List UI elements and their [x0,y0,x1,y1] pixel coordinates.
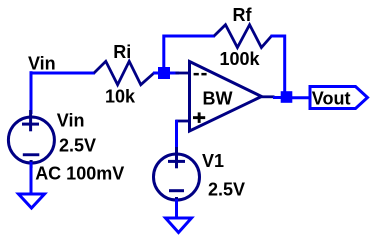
wire: AC source to ground [30,162,33,195]
wire: V1 to ground [175,199,178,219]
wire: op-amp output to output junction [273,96,284,99]
svg-text:Vin: Vin [57,111,85,131]
svg-text:100k: 100k [220,49,261,69]
junction: inverting input node [158,67,170,79]
wire: junction up to Rf branch [164,36,215,70]
svg-text:2.5V: 2.5V [208,180,245,200]
svg-text:2.5V: 2.5V [59,136,96,156]
voltage source V1 [154,147,200,205]
wire: non-inverting input down to V1 [175,120,178,150]
op-amp non-inverting input marker "+" [193,112,205,123]
voltage source Vin (AC) [8,110,54,168]
ground (V1) [166,218,192,233]
wire: junction to op-amp inverting input [165,72,179,75]
ground (left) [19,194,45,208]
svg-text:V1: V1 [202,151,224,171]
svg-text:AC 100mV: AC 100mV [35,164,124,184]
wire: Ri to inverting junction [153,72,165,75]
resistor Ri [94,61,154,84]
svg-text:Vin: Vin [28,53,56,73]
svg-text:Vout: Vout [312,88,351,108]
op-amp inverting input marker "--" [194,73,207,76]
wire: Vin net horizontal to Ri [30,72,95,75]
op-amp U1 [176,62,275,132]
wire: Rf to output node [271,36,285,94]
svg-text:BW: BW [203,89,233,109]
svg-text:Ri: Ri [113,42,131,62]
resistor Rf [214,25,272,48]
output port Vout [310,87,368,109]
wire: Vin net vertical drop to AC source [30,71,33,114]
svg-text:Rf: Rf [233,5,253,25]
svg-text:10k: 10k [105,87,136,107]
wire: output junction to Vout port [290,96,311,99]
junction: output node [281,91,293,103]
